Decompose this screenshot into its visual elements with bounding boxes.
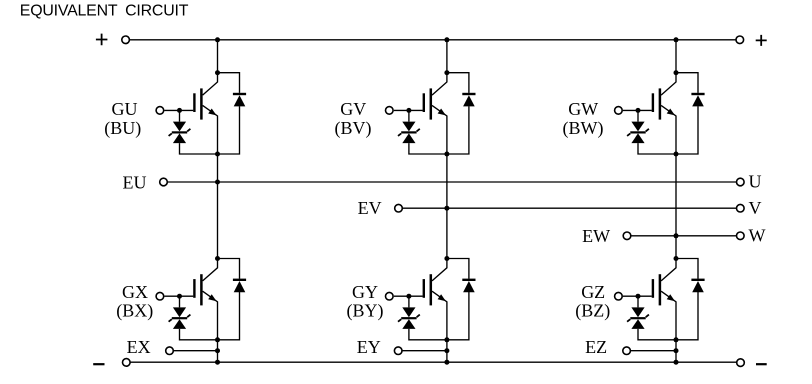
svg-text:GV: GV: [340, 99, 366, 119]
svg-text:(BY): (BY): [347, 300, 384, 321]
svg-text:EU: EU: [123, 172, 147, 192]
svg-text:GX: GX: [122, 282, 148, 302]
svg-text:GZ: GZ: [581, 282, 605, 302]
svg-text:W: W: [749, 225, 766, 245]
svg-text:EW: EW: [582, 226, 610, 246]
svg-text:EZ: EZ: [585, 337, 607, 357]
svg-text:(BX): (BX): [116, 300, 153, 321]
svg-text:EQUIVALENT CIRCUIT: EQUIVALENT CIRCUIT: [20, 3, 189, 20]
svg-text:EV: EV: [358, 198, 382, 218]
svg-text:(BU): (BU): [104, 118, 141, 139]
svg-text:GY: GY: [352, 282, 378, 302]
svg-text:(BZ): (BZ): [575, 300, 610, 321]
svg-text:GW: GW: [568, 99, 598, 119]
svg-text:(BV): (BV): [335, 118, 372, 139]
svg-text:EY: EY: [357, 337, 381, 357]
svg-text:V: V: [749, 198, 762, 218]
svg-text:EX: EX: [127, 337, 151, 357]
svg-text:GU: GU: [112, 99, 138, 119]
svg-text:(BW): (BW): [563, 118, 604, 139]
svg-text:U: U: [749, 172, 762, 192]
